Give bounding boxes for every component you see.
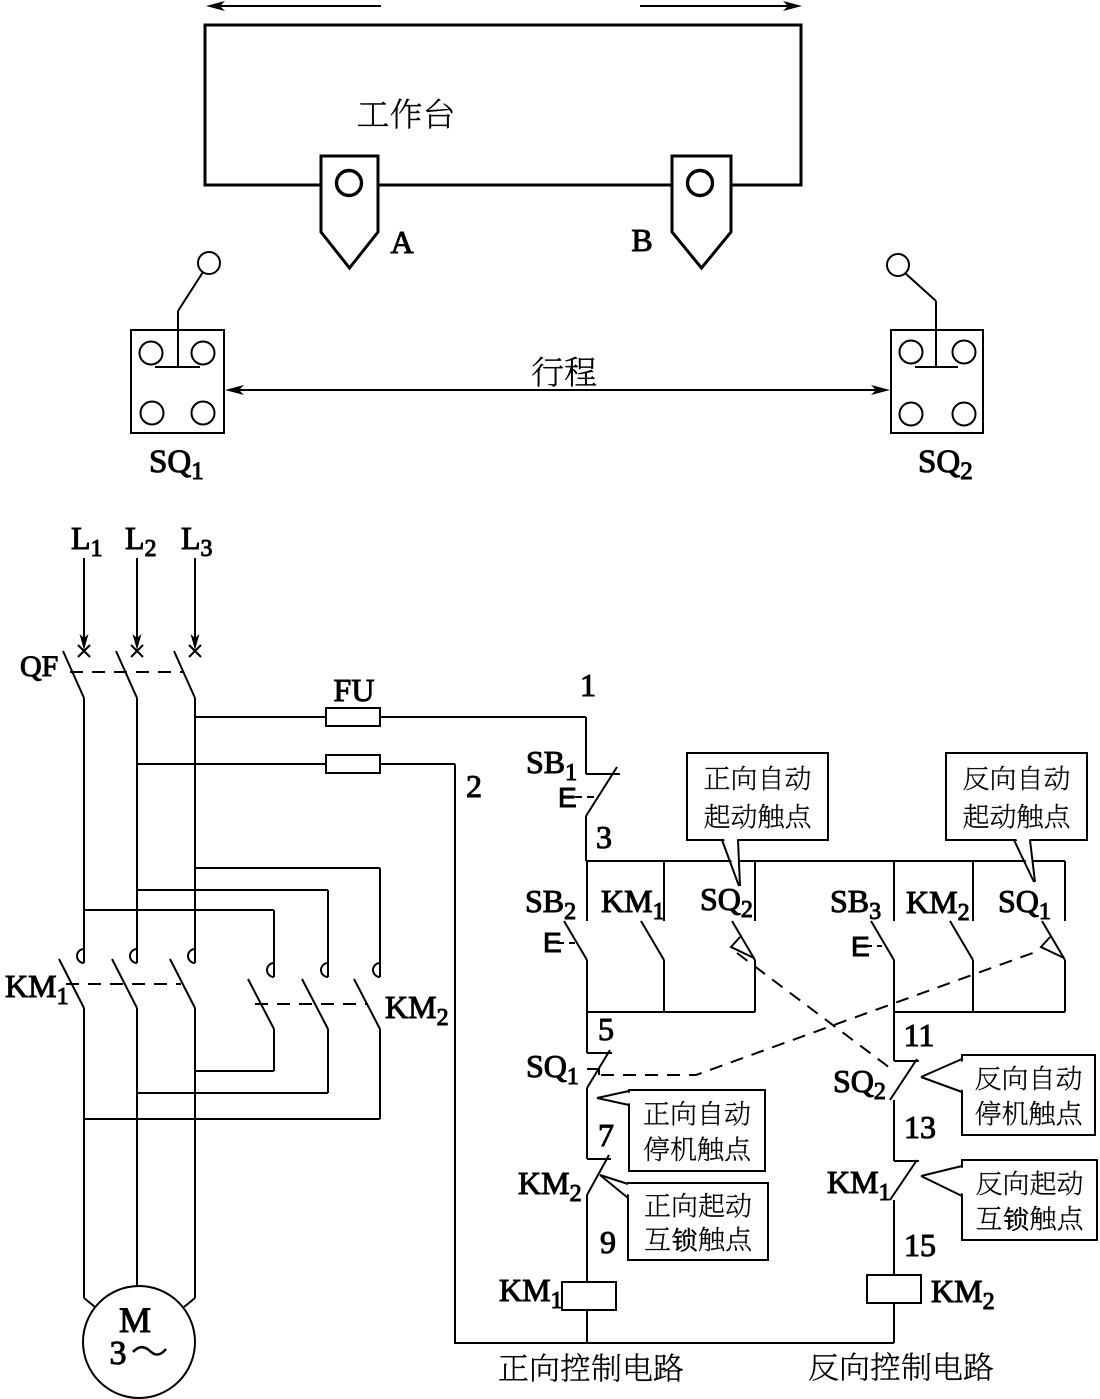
- coil KM2: [867, 1273, 995, 1315]
- contact KM2 aux NO (self-hold): [906, 861, 973, 1012]
- wire phase 3 (QF to KM1): [194, 698, 196, 963]
- mechanical link SQ1 (dashed): [601, 950, 1041, 1075]
- mechanical link SQ2 (dashed): [737, 953, 894, 1071]
- control top bus: [586, 860, 1065, 862]
- wire KM2 feed bottom (phase1): [84, 910, 274, 977]
- svg-text:B: B: [631, 222, 652, 258]
- wire SB1 to bus: [585, 816, 587, 861]
- wire KM2 feed top (phase3): [195, 868, 380, 977]
- wire coil KM1 to bottom bus: [586, 1310, 588, 1343]
- terminal L2: [125, 520, 157, 650]
- svg-text:1: 1: [580, 667, 596, 703]
- contactor KM2 main contacts: [248, 963, 449, 1031]
- wire phase 2 (QF to KM1): [136, 698, 138, 963]
- limit switch SQ2 (physical): [887, 254, 983, 433]
- worktable 工作台: [205, 25, 801, 185]
- start button SB3: [830, 861, 894, 1012]
- contact SQ2 NO (forward auto start): [700, 861, 755, 1012]
- callout: reverse auto stop contact: [921, 1055, 1095, 1135]
- wire KM2 crossover 3: [84, 1029, 380, 1119]
- callout: forward auto start contact: [687, 753, 828, 886]
- callout: reverse auto start contact: [946, 753, 1087, 882]
- wire KM2 crossover 2: [137, 1029, 328, 1093]
- wire KM2 crossover 1: [195, 1029, 274, 1071]
- right group lower bus: [894, 1011, 1065, 1013]
- svg-text:13: 13: [904, 1109, 936, 1145]
- stop button SB1: [526, 744, 620, 816]
- wire KM2 feed mid (phase2): [137, 890, 328, 977]
- terminal L3: [181, 520, 213, 650]
- wire phase 1 (QF to KM1): [83, 698, 85, 963]
- limit switch SQ1 (physical): [131, 252, 224, 433]
- svg-text:A: A: [390, 224, 413, 260]
- contact SQ1 NO (reverse auto start): [998, 861, 1065, 1012]
- worktable right motion arrow: [640, 1, 802, 11]
- start button SB2: [525, 861, 587, 1012]
- wire KM1NC to coil KM2: [893, 1200, 895, 1275]
- left group lower bus: [587, 1011, 755, 1013]
- callout: forward start interlock contact: [600, 1175, 768, 1260]
- wire node1 down to SB1: [585, 717, 587, 774]
- svg-text:7: 7: [598, 1117, 614, 1153]
- svg-text:3: 3: [596, 819, 612, 855]
- fuse FU1: [326, 708, 380, 726]
- travel span arrow 行程: [225, 357, 890, 395]
- terminal L1: [71, 520, 103, 650]
- wire KM2NC to coil KM1: [586, 1195, 588, 1282]
- svg-text:2: 2: [466, 768, 482, 804]
- dog B (cam): [672, 156, 731, 268]
- wire SQ1NC to KM2NC: [586, 1088, 588, 1159]
- svg-text:9: 9: [600, 1224, 616, 1260]
- caption forward control circuit: [499, 1355, 527, 1381]
- svg-text:M: M: [119, 1300, 151, 1340]
- svg-text:FU: FU: [334, 672, 375, 708]
- svg-text:5: 5: [598, 1011, 614, 1047]
- callout: forward auto stop contact: [597, 1090, 765, 1171]
- svg-text:15: 15: [904, 1227, 936, 1263]
- coil KM1: [499, 1272, 616, 1314]
- wire control line 1 (phase3 to SB1): [195, 716, 586, 718]
- dog A (cam): [321, 156, 378, 268]
- worktable left motion arrow: [206, 1, 381, 11]
- bottom bus: [454, 1342, 894, 1344]
- contact KM1 aux NO (self-hold): [601, 861, 665, 1012]
- circuit breaker QF: [20, 645, 201, 698]
- wire SQ2NC to KM1NC: [893, 1100, 895, 1161]
- motor M 3~: [83, 1286, 195, 1398]
- contact KM2 NC interlock: [518, 1155, 611, 1207]
- wire coil KM2 to bottom bus: [893, 1303, 895, 1343]
- svg-text:E: E: [558, 782, 577, 813]
- contact SQ1 NC (forward auto stop): [526, 1012, 612, 1090]
- caption reverse control circuit: [809, 1354, 838, 1381]
- svg-text:QF: QF: [20, 650, 58, 683]
- wire KM1 outputs to motor: [84, 1008, 195, 1298]
- callout: reverse start interlock contact: [921, 1160, 1097, 1240]
- contactor KM1 main contacts: [5, 949, 195, 1010]
- svg-text:11: 11: [904, 1017, 935, 1053]
- fuse FU2: [326, 755, 380, 773]
- svg-text:3: 3: [110, 1335, 127, 1372]
- contact KM1 NC interlock: [827, 1160, 919, 1206]
- wire control line 2 (phase2 to left rail): [137, 764, 455, 1343]
- contact SQ2 NC (reverse auto stop): [833, 1012, 919, 1105]
